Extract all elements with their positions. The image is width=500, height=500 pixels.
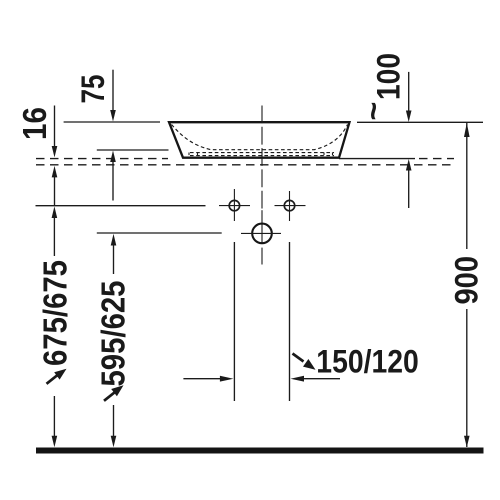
svg-text:100: 100 [370,53,406,100]
dimension 675/675 top arrow [52,206,58,218]
wire rim level line left segment [64,121,160,123]
dimension 675/675 lower line and floor arrow [53,396,55,437]
dimension 150/120 left extension line [233,242,235,401]
basin centerline [261,106,263,210]
drain crosshair horizontal [241,232,281,234]
dimension 900 line upper segment [466,122,468,249]
svg-text:595/625: 595/625 [96,281,133,387]
dimension 900 bottom arrowhead [464,436,470,448]
dimension 75 lower arrow [112,161,114,201]
basin inner bowl dashed curve [172,125,348,150]
svg-text:900: 900 [448,256,484,305]
dimension 150/120 right extension line [289,242,291,401]
dimension 900 line lower segment [466,309,468,447]
basin right drain pocket dashed [324,153,333,158]
dimension 900 top arrowhead [464,123,470,137]
dimension 150/120 SE leader arrow [293,354,304,362]
basin left drain pocket dashed [189,153,198,158]
wire faucet-hole level line A [36,205,206,207]
dimension 16 lower arrow [54,177,56,205]
faucet hole right crosshair [275,191,306,221]
dimension 595/625 NE leader arrow [104,392,115,400]
dimension 16 upper arrow [54,106,56,147]
floor bar [36,448,484,454]
basin inner bottom dashed line upper [190,152,334,154]
faucet hole left crosshair [219,189,250,221]
dimension 595/625 lower line and floor arrow [113,405,115,437]
faucet hole right circle [284,200,294,210]
dimension 150/120 right arrow [302,378,341,380]
svg-text:675/675: 675/675 [37,260,74,366]
basin inner bottom dashed line lower [190,155,334,157]
dimension 595/625 top arrow [111,234,117,246]
dimension ~100 upper arrow [408,72,410,112]
wire countertop top solid line right [339,158,415,160]
svg-text:75: 75 [75,74,111,103]
wire countertop top dashed line left [36,158,168,160]
drain circle [252,224,272,244]
wire countertop bottom dashed line [36,164,454,166]
dimension 675/675 NE leader arrow [47,375,58,384]
faucet hole left circle [229,200,239,210]
dimension 75 upper arrow [112,70,114,111]
svg-text:~: ~ [355,102,391,121]
wire countertop top dashed line far right [419,158,454,160]
wire 75 lower reference line [97,149,169,151]
svg-text:16: 16 [17,107,54,140]
wire rim level line right segment [357,121,483,123]
wire drain level line B [97,232,222,234]
basin outline [169,122,350,158]
svg-text:150/120: 150/120 [316,344,419,380]
dimension 150/120 left arrow [183,378,222,380]
dimension ~100 lower arrow [408,170,410,208]
